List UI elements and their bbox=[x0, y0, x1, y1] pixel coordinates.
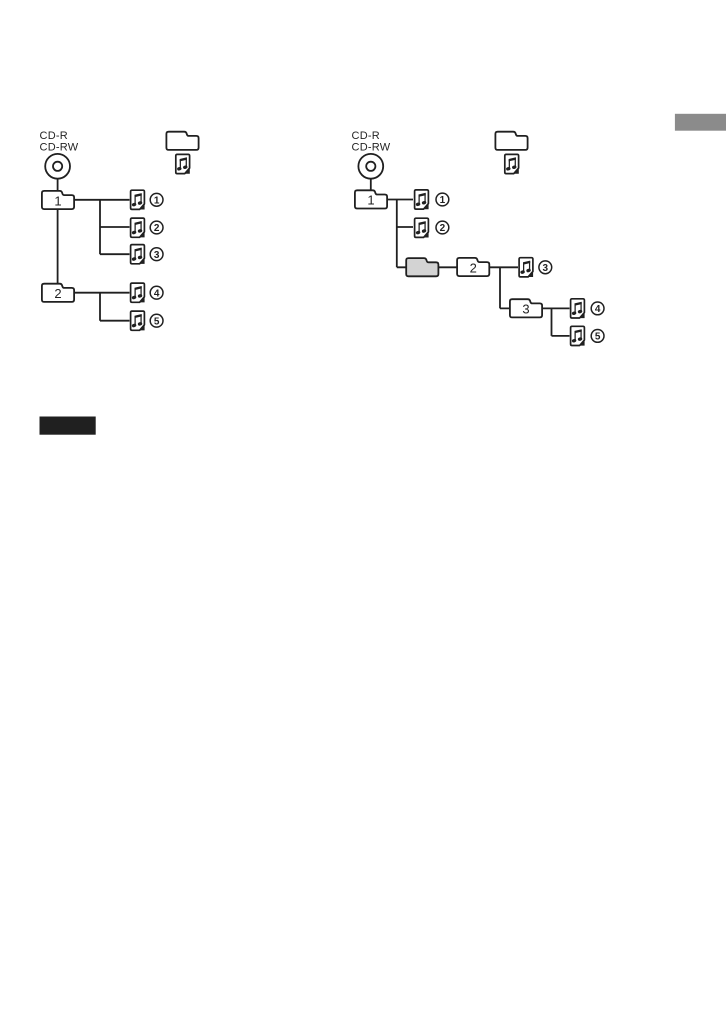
svg-text:4: 4 bbox=[595, 304, 601, 315]
svg-text:5: 5 bbox=[154, 316, 160, 327]
svg-text:CD-RW: CD-RW bbox=[40, 141, 79, 153]
svg-text:3: 3 bbox=[522, 302, 529, 317]
svg-text:1: 1 bbox=[440, 195, 446, 206]
svg-text:5: 5 bbox=[595, 332, 601, 343]
svg-text:CD-RW: CD-RW bbox=[352, 141, 391, 153]
svg-text:2: 2 bbox=[440, 223, 446, 234]
svg-text:3: 3 bbox=[543, 263, 549, 274]
svg-text:4: 4 bbox=[154, 288, 160, 299]
svg-text:CD-R: CD-R bbox=[40, 130, 69, 142]
svg-text:2: 2 bbox=[154, 223, 160, 234]
svg-text:1: 1 bbox=[367, 193, 374, 208]
svg-text:2: 2 bbox=[54, 286, 61, 301]
svg-text:3: 3 bbox=[154, 250, 160, 261]
svg-text:CD-R: CD-R bbox=[352, 130, 381, 142]
svg-text:1: 1 bbox=[154, 196, 160, 207]
svg-text:2: 2 bbox=[470, 260, 477, 275]
svg-text:1: 1 bbox=[54, 193, 61, 208]
